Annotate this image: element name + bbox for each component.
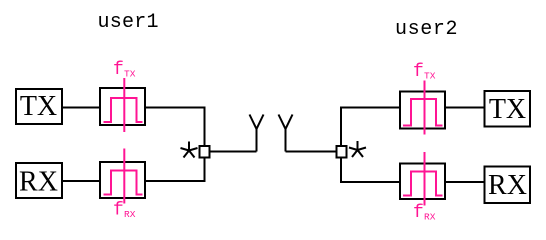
svg-text:RX: RX: [488, 170, 527, 201]
filter RX user2 box: [400, 164, 445, 200]
svg-text:user2: user2: [395, 18, 458, 41]
filter RX user1 bandpass response: [104, 171, 143, 195]
svg-text:f: f: [413, 203, 424, 223]
wire filter TX to node user1: [145, 108, 205, 147]
box RX user2: [485, 167, 531, 204]
svg-text:RX: RX: [424, 212, 436, 223]
wire antenna to node user2: [286, 151, 337, 153]
label f_RX user1: [113, 201, 136, 221]
svg-text:user1: user1: [98, 11, 159, 34]
svg-text:RX: RX: [124, 209, 136, 220]
box TX user1: [16, 89, 62, 124]
wire RX box to filter user1: [62, 180, 100, 182]
wire filter TX to box TX user2: [445, 107, 485, 109]
svg-text:TX: TX: [424, 71, 436, 82]
svg-text:TX: TX: [20, 91, 57, 122]
box TX user2: [485, 91, 531, 127]
antenna user2: [279, 115, 293, 152]
filter TX user2 center-frequency line: [424, 81, 426, 135]
box RX user1: [16, 163, 62, 198]
filter RX user1 box: [100, 162, 145, 198]
antenna user1: [250, 115, 264, 152]
label f_TX user1: [113, 60, 136, 80]
filter TX user1 center-frequency line: [123, 78, 125, 132]
filter RX user2 bandpass response: [403, 172, 443, 196]
filter TX user1 bandpass response: [104, 98, 143, 122]
wire TX box to filter user1: [62, 107, 100, 109]
node square (antenna port) user2: [337, 146, 347, 158]
svg-text:TX: TX: [489, 94, 526, 125]
label f_RX user2: [413, 203, 436, 223]
wire filter RX to box RX user2: [445, 181, 485, 183]
svg-text:f: f: [113, 60, 124, 80]
wire node to antenna user1: [210, 151, 257, 153]
filter RX user2 center-frequency line: [424, 152, 426, 206]
filter TX user2 box: [400, 92, 445, 129]
label f_TX user2: [413, 62, 436, 82]
asterisk user1: [181, 142, 198, 158]
svg-text:RX: RX: [19, 167, 58, 198]
wire node to filter RX user2: [341, 158, 400, 183]
wire node to filter TX user2: [341, 108, 400, 147]
filter RX user1 center-frequency line: [123, 149, 125, 204]
node square (antenna port) user1: [200, 146, 210, 158]
filter TX user1 box: [100, 88, 145, 125]
svg-text:TX: TX: [124, 69, 136, 80]
svg-text:f: f: [113, 201, 124, 221]
wire filter RX to node user1: [145, 158, 205, 182]
filter TX user2 bandpass response: [403, 99, 443, 126]
asterisk user2: [349, 141, 366, 157]
svg-text:f: f: [413, 62, 424, 82]
